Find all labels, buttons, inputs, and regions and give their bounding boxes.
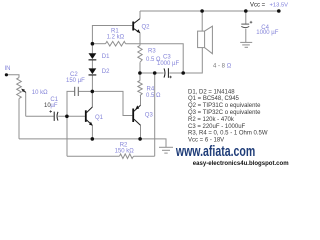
svg-text:R2: R2 (120, 142, 128, 148)
svg-text:D1, D2 = 1N4148: D1, D2 = 1N4148 (188, 89, 235, 95)
svg-text:Q3 = TIP32C o equivalente: Q3 = TIP32C o equivalente (188, 110, 261, 116)
svg-text:150 µF: 150 µF (66, 78, 85, 84)
svg-text:D2: D2 (102, 69, 110, 75)
svg-text:1.2 kΩ: 1.2 kΩ (107, 35, 125, 41)
svg-text:Q1 = BC548, C945: Q1 = BC548, C945 (188, 96, 240, 102)
svg-text:R3, R4 = 0, 0.5 - 1 Ohm 0.5W: R3, R4 = 0, 0.5 - 1 Ohm 0.5W (188, 131, 268, 137)
svg-text:www.afiata.com: www.afiata.com (175, 143, 255, 160)
svg-text:D1: D1 (102, 54, 110, 60)
svg-text:C3: C3 (163, 54, 171, 60)
svg-text:C3 = 220uF - 1000uF: C3 = 220uF - 1000uF (188, 124, 246, 130)
svg-text:+13.5V: +13.5V (270, 2, 289, 8)
svg-text:IN: IN (5, 66, 11, 72)
svg-text:Q3: Q3 (145, 113, 154, 119)
svg-text:C1: C1 (50, 97, 58, 103)
svg-text:C2: C2 (70, 72, 78, 78)
svg-text:150 kΩ: 150 kΩ (115, 149, 135, 155)
svg-text:R4: R4 (147, 86, 155, 92)
svg-text:1000 µF: 1000 µF (157, 61, 179, 67)
svg-text:Vcc =: Vcc = (250, 3, 266, 9)
svg-text:R2 = 120k - 470k: R2 = 120k - 470k (188, 117, 235, 123)
svg-text:Q2 = TIP31C o equivalente: Q2 = TIP31C o equivalente (188, 103, 261, 109)
svg-text:µF: µF (50, 103, 57, 109)
svg-text:easy-electronics4u.blogspot.co: easy-electronics4u.blogspot.com (193, 160, 289, 167)
svg-text:10 kΩ: 10 kΩ (32, 90, 48, 96)
svg-text:Q1: Q1 (95, 115, 104, 121)
svg-text:Q2: Q2 (142, 24, 151, 30)
svg-text:4 - 8 Ω: 4 - 8 Ω (213, 64, 232, 70)
svg-text:1000 µF: 1000 µF (256, 30, 278, 36)
svg-text:R3: R3 (148, 48, 156, 54)
svg-text:0.5 Ω: 0.5 Ω (146, 93, 161, 99)
